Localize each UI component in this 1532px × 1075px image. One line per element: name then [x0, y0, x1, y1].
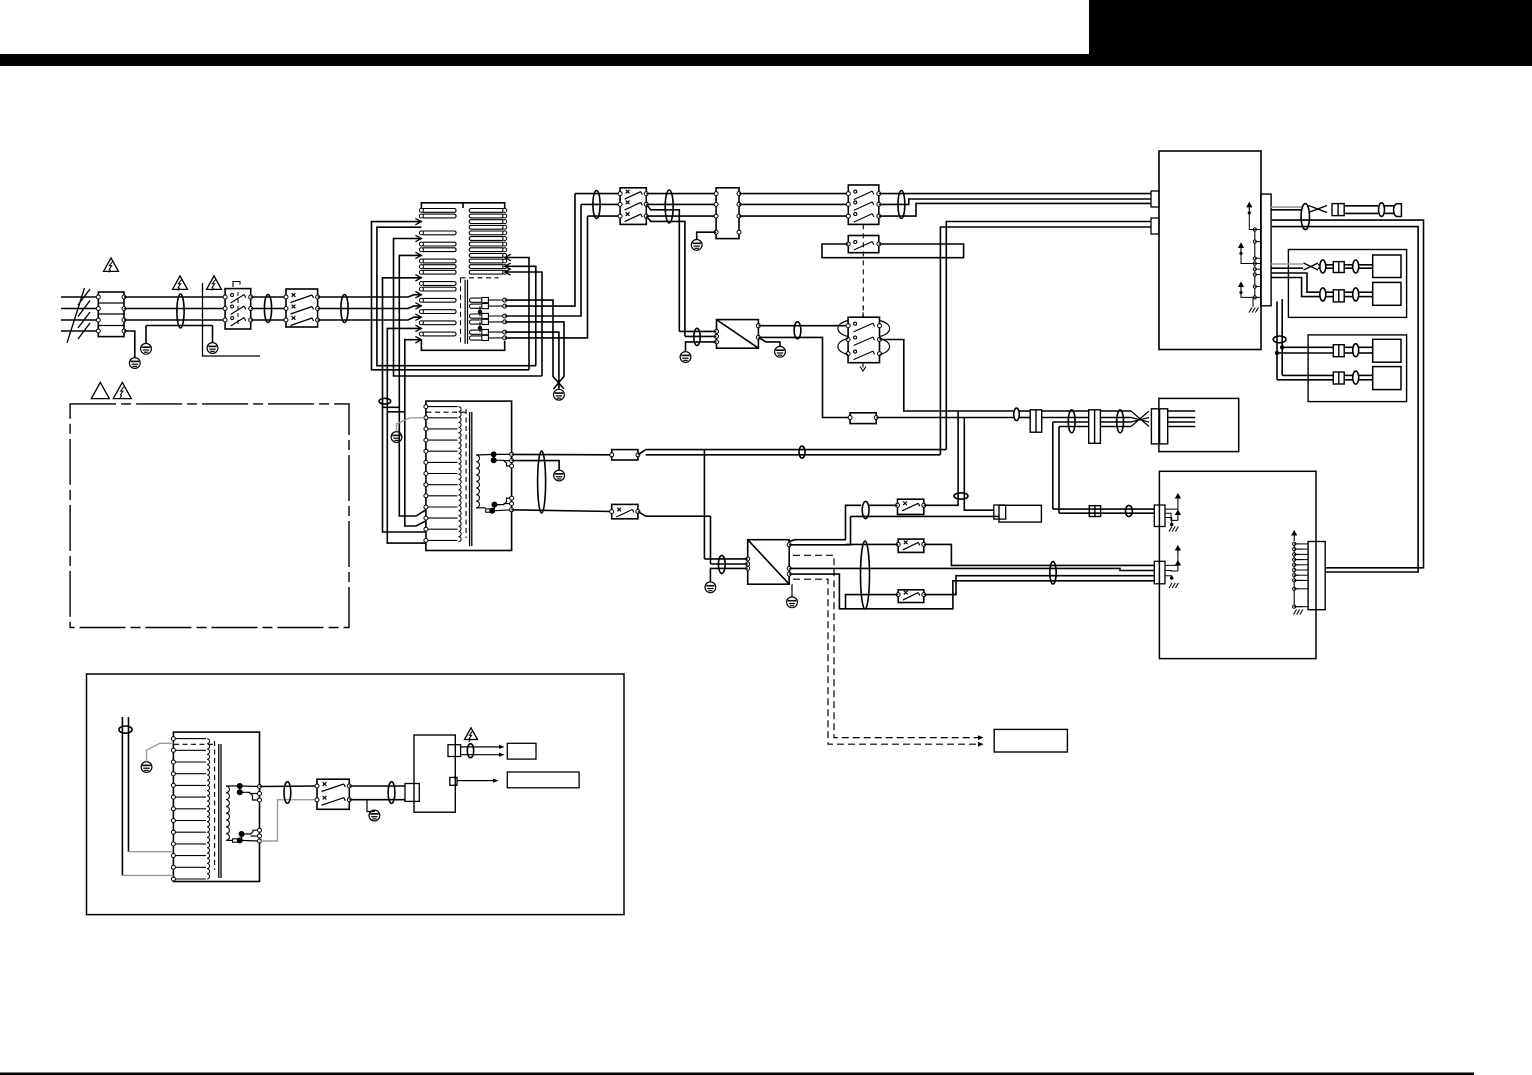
ferrite F7	[1301, 204, 1309, 230]
connector CN7	[1333, 290, 1344, 302]
transformer T1 winding right	[469, 209, 503, 213]
right connector CN4	[1261, 194, 1271, 306]
wires to horn 2	[1385, 205, 1395, 207]
speaker SP3	[1373, 339, 1401, 362]
boundary line	[203, 283, 261, 356]
T2 earth with gray link	[391, 432, 402, 443]
connector stub CN3	[1151, 218, 1159, 234]
breaker S2 box	[620, 188, 646, 225]
connector CN9	[1333, 372, 1344, 384]
earth E5 to connector	[697, 232, 716, 239]
earth E2 with stem	[145, 326, 147, 344]
relay K2 contacts	[846, 192, 850, 196]
wire L1-L3 to relay	[124, 296, 225, 298]
tap wires to top bus risers	[505, 194, 575, 307]
LV bus line B	[646, 454, 941, 456]
channel D wires	[1282, 374, 1333, 376]
SW3 in	[846, 595, 899, 609]
cable ferrite F3	[341, 295, 348, 323]
relay K1 box	[225, 289, 251, 329]
twisted output pair	[1271, 206, 1302, 208]
breaker S2 contacts	[618, 192, 622, 196]
PSU1 out2 to earth	[758, 337, 780, 346]
inset transformer box	[173, 732, 259, 881]
inset core	[218, 744, 220, 878]
channel B wires	[1271, 273, 1320, 292]
connector CN12	[1151, 409, 1167, 444]
ferrite F13	[1273, 336, 1286, 343]
PSU2 earth in	[710, 568, 747, 582]
earth E1	[129, 358, 140, 369]
warning triangle W4	[91, 382, 109, 398]
ferrite F22	[862, 501, 869, 518]
ferrite F11	[1320, 288, 1326, 301]
inset ferrite 2	[284, 782, 291, 804]
T2 small fuse	[486, 509, 491, 512]
speaker SP1	[1373, 255, 1401, 278]
24V line right	[880, 340, 1014, 412]
dashed remote link 2	[793, 579, 979, 744]
CN15 chassis	[1294, 610, 1304, 615]
transformer T1 secondary small windings	[469, 298, 481, 302]
SW1 out to riser	[924, 411, 958, 505]
top bus jog row3	[879, 203, 1151, 216]
inset small fuse	[233, 839, 238, 842]
connector CN5	[1332, 204, 1344, 216]
speaker group box 1	[1288, 250, 1406, 318]
ferrite F10	[1353, 260, 1359, 273]
ferrite F15	[1353, 371, 1359, 384]
footer rule bar	[0, 1073, 1474, 1075]
transformer T1 primary winding left	[423, 209, 456, 213]
T2 output line A	[512, 453, 612, 455]
PSU2 out1	[789, 505, 861, 541]
inset transformer primary	[173, 738, 206, 740]
terminal block TB1	[98, 292, 124, 337]
relay K3 contacts	[846, 324, 850, 328]
secondary wires down to earth twisted	[505, 300, 564, 389]
cable ferrite F25	[1050, 562, 1056, 584]
amp connector CN14	[1154, 561, 1165, 584]
relay K2 box	[848, 185, 879, 224]
warning triangle W3	[207, 276, 222, 290]
warning triangle W2	[173, 276, 188, 290]
breaker S1 box	[286, 289, 318, 327]
top bus after K2	[879, 193, 1151, 195]
inset out ferrite	[467, 744, 473, 758]
fuse FU2	[850, 413, 876, 424]
inset label box 2	[507, 772, 579, 788]
ferrite on vertical pair	[379, 398, 391, 404]
transformer T2 box	[426, 401, 512, 550]
T2 secondary bottom taps	[476, 507, 486, 509]
PSU2 feed verticals	[703, 450, 705, 559]
twist X3	[1131, 411, 1149, 427]
inset warning triangle	[465, 728, 478, 740]
CN14 pins	[1176, 546, 1180, 556]
relay K1 actuator symbol	[233, 282, 240, 288]
ferrite F23	[954, 493, 968, 499]
speaker SP4	[1373, 367, 1401, 390]
relay K3 box	[848, 317, 879, 363]
mains plug and socket	[994, 505, 1006, 519]
T2 center tap earth	[512, 461, 559, 470]
primary input taps	[377, 295, 422, 297]
PSU2 converter box	[748, 540, 790, 585]
left bus vertical	[394, 239, 543, 377]
cable ferrite F6	[898, 191, 905, 219]
top bus to connector	[646, 193, 716, 195]
main board A1 box	[1159, 151, 1261, 350]
tap down-wires under transformer	[505, 258, 529, 370]
inset preamp box	[414, 735, 455, 812]
relay K3 linkage dashed with arrow	[862, 306, 864, 317]
shield wire	[146, 325, 213, 327]
inset screen dashed	[214, 741, 216, 870]
primary tap wires left maze	[372, 222, 530, 370]
transformer T2 secondary coil	[476, 455, 479, 508]
transformer T1 top link bar	[421, 203, 504, 211]
wires breaker to transformer	[318, 296, 377, 298]
PSU1 input wires	[679, 330, 716, 332]
inset secondary coil	[226, 786, 229, 840]
cable ferrite F2	[264, 295, 271, 323]
branch to PSU1 row3	[646, 216, 685, 336]
ferrite F16	[794, 322, 801, 339]
cable ferrite F20	[538, 451, 546, 513]
ferrite F14	[1353, 344, 1359, 357]
connector CN1 box	[716, 188, 739, 239]
amp right connector CN15	[1308, 542, 1325, 610]
speaker SP2	[1373, 282, 1401, 305]
header rule bar	[0, 54, 1532, 66]
channel A wires	[1271, 263, 1303, 265]
inset outer box	[87, 674, 625, 915]
earth E3 with stem	[212, 326, 214, 343]
PSU2 earth out	[791, 584, 793, 597]
top bus to relay K2	[739, 193, 848, 195]
transformer T1 screen shield dashed	[460, 278, 462, 344]
ferrite F19	[1117, 410, 1124, 433]
switchbox SW1	[898, 499, 924, 514]
plug feed	[964, 418, 994, 511]
CD mechanism box	[1159, 398, 1239, 451]
transformer T1 core lines	[464, 280, 466, 344]
header black title block	[1089, 0, 1532, 66]
fuse FU1	[612, 450, 638, 460]
inset switch outputs	[349, 785, 405, 787]
amp connector CN13	[1154, 505, 1165, 527]
note box dash-dot border	[70, 404, 349, 628]
PSU2 input wires	[704, 558, 747, 560]
CN15 pin column	[1293, 544, 1295, 607]
inset mains input pair	[121, 717, 123, 875]
long AC line O2 to outlet	[851, 515, 1000, 517]
warning triangle W1	[104, 258, 119, 272]
relay K2 linkage dashed	[862, 224, 864, 317]
amp feed pair	[1053, 508, 1155, 510]
switch S3 box	[848, 236, 879, 253]
CN4 pin column	[1254, 230, 1256, 298]
connector CN16	[1089, 506, 1100, 517]
PSU1 out2 to fuse	[758, 337, 850, 417]
relay K1 contacts	[223, 295, 227, 299]
cable ferrite F1	[177, 294, 184, 328]
wire N to earth	[124, 331, 135, 358]
inset output B gray	[260, 800, 318, 841]
T2 secondary top taps	[476, 453, 494, 456]
channel C wires	[1282, 346, 1333, 348]
PSU1 input ferrite	[694, 328, 700, 345]
SW3 out	[924, 576, 1155, 595]
switch S4 output line	[646, 515, 711, 517]
CN4 arrow pins	[1247, 203, 1251, 213]
amplifier unit box	[1159, 471, 1316, 658]
branch to PSU1 row2	[646, 204, 679, 331]
earth E4 below transformer	[554, 389, 565, 400]
PSU2 out3 long line	[789, 568, 1154, 570]
wires to horn	[1344, 205, 1378, 207]
top bus jog row2	[879, 199, 1151, 204]
PSU1 converter box	[717, 320, 759, 349]
speaker group box 2	[1308, 335, 1407, 402]
ferrite F17	[1014, 408, 1020, 420]
bundle join verticals	[1052, 422, 1054, 509]
cable ferrite F24	[861, 541, 870, 609]
transformer T1 bottom bar	[421, 340, 504, 351]
transformer T2 core	[469, 412, 471, 546]
inset plug connector	[405, 784, 419, 802]
transformer T1 secondary junction dots	[478, 310, 482, 314]
CN4 chassis ground	[1252, 297, 1254, 307]
CN15 arrow	[1292, 531, 1296, 541]
PSU2 out4 bottom route	[789, 574, 1154, 609]
horn speaker	[1394, 204, 1402, 217]
connector CN10	[1030, 410, 1042, 432]
inset ferrite	[119, 726, 132, 733]
remote box	[994, 729, 1067, 752]
feedback bus right	[1272, 220, 1424, 568]
mains input lines	[61, 296, 98, 298]
ferrite F21	[799, 446, 805, 458]
LV bus line A	[646, 449, 947, 451]
transformer T2 screen dashed	[465, 409, 467, 538]
CN13 pins	[1176, 494, 1180, 504]
breaker S1 contacts	[284, 295, 288, 299]
left bus lower links	[383, 407, 426, 532]
top bus wires from risers	[575, 193, 620, 195]
T2 output line B	[512, 510, 612, 512]
switch S4 box	[612, 504, 638, 518]
inset secondary taps	[226, 785, 240, 787]
switch S3 loop wiring	[822, 244, 964, 258]
ferrite F8	[1379, 203, 1385, 217]
ferrite F26	[1126, 505, 1133, 516]
relay K3 side arcs	[838, 321, 890, 355]
PSU2 out2	[789, 516, 850, 544]
connector CN11	[1089, 410, 1101, 444]
inset out 2 wire	[457, 780, 494, 782]
connector stub CN2	[1151, 191, 1159, 207]
top bus riser 3	[505, 216, 588, 338]
SW2 out	[924, 544, 1155, 565]
transformer T1 secondary fuses	[482, 298, 489, 303]
inset label box 1	[507, 743, 536, 759]
ferrite F9	[1320, 260, 1326, 273]
warning triangle W5	[113, 382, 131, 398]
cable ferrite F4	[593, 191, 600, 219]
cable ferrite F5	[665, 190, 673, 223]
inset out 2 square	[450, 777, 457, 785]
twist X1	[1309, 206, 1328, 213]
inset earth with gray link	[141, 762, 152, 773]
switchbox SW3	[898, 590, 924, 603]
PSU1 earth	[686, 342, 717, 352]
junction dots	[1280, 345, 1284, 349]
twist X2	[1304, 263, 1319, 270]
connector CN8	[1333, 345, 1344, 357]
switchbox SW2	[898, 539, 924, 552]
inset switch box	[317, 779, 349, 809]
PSU2 input ferrite	[718, 555, 725, 573]
connector CN6	[1333, 262, 1344, 273]
inset out wires with arrows	[461, 746, 500, 748]
dashed remote link 1	[793, 555, 979, 737]
inset gray tap links	[129, 851, 174, 853]
PSU1 out1	[758, 325, 848, 327]
ferrite F12	[1353, 288, 1359, 301]
inset earth 2	[367, 800, 374, 812]
inset out connector	[448, 745, 461, 757]
inset ferrite 3	[388, 782, 395, 804]
mains cable slash marks	[78, 289, 90, 305]
ferrite F18	[1068, 410, 1075, 433]
wires relay to breaker	[251, 296, 286, 298]
transformer T2 primary winding	[426, 406, 458, 408]
LV supply lines to CN3	[946, 222, 1151, 450]
channel C/D feed verticals	[1281, 299, 1283, 375]
inset output A	[260, 785, 318, 788]
